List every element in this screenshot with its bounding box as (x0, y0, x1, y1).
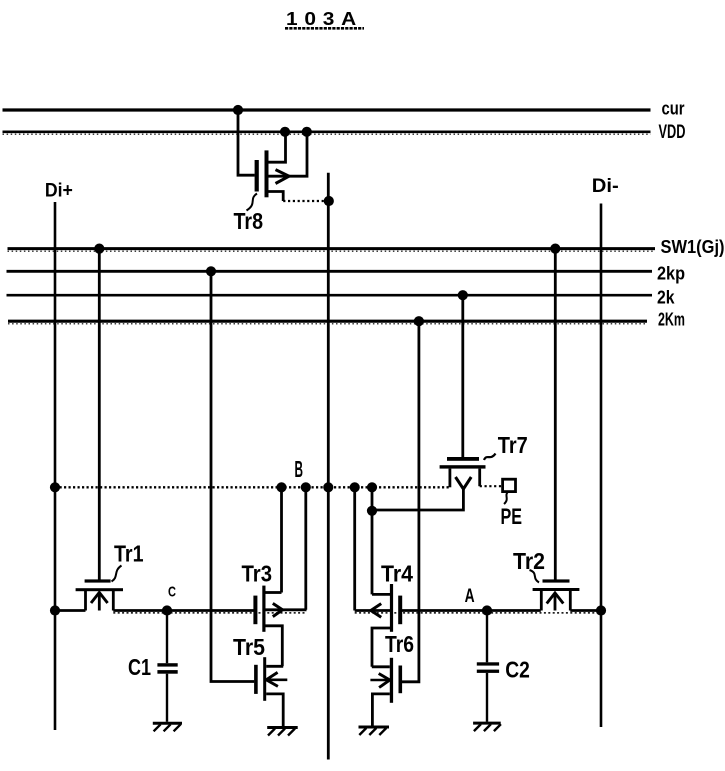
wire B to Tr3 bulk (304, 487, 307, 610)
line Di- (600, 204, 603, 728)
capacitor C2 (477, 611, 499, 722)
bus line cur (3, 108, 651, 111)
svg-text:Tr1: Tr1 (114, 541, 144, 567)
svg-text:2k: 2k (657, 287, 675, 308)
junction dot VDD/Tr8 bulk (302, 127, 312, 137)
wire 2Km to Tr6 gate (402, 321, 419, 682)
transistor Tr4 (355, 584, 403, 667)
svg-text:Di+: Di+ (45, 181, 73, 202)
svg-text:Tr6: Tr6 (385, 631, 414, 657)
wire SW1 to Tr1 gate (98, 249, 101, 581)
junction dot 2kp (206, 266, 216, 276)
leader line Tr8 (247, 194, 258, 211)
bus line 2k (7, 294, 653, 297)
transistor Tr2 (533, 579, 580, 610)
wire B to Tr3 drain (280, 487, 283, 592)
svg-text:PE: PE (501, 504, 523, 529)
svg-text:2kp: 2kp (657, 263, 685, 284)
svg-text:cur: cur (662, 98, 685, 118)
svg-text:Tr3: Tr3 (242, 560, 273, 586)
junction dot B2 (301, 482, 311, 492)
bus line VDD (3, 131, 651, 134)
transistor Tr6 (370, 658, 402, 726)
junction dot B1 (276, 482, 286, 492)
bus line VDD scan texture (3, 133, 651, 135)
wire 2kp to Tr5 gate (211, 271, 254, 681)
junction dot B/Di+ (50, 482, 60, 492)
junction dot B6 lower (367, 506, 377, 516)
junction dot Tr8 source/center wire (324, 196, 334, 206)
title 103A (285, 8, 364, 29)
junction dot cur/Tr8 gate (233, 105, 243, 115)
wire 2k to Tr7 gate (461, 295, 464, 457)
svg-text:Tr4: Tr4 (381, 560, 413, 586)
bus line 2kp (7, 270, 653, 273)
junction dot Di+/row C (50, 605, 60, 615)
svg-text:SW1(Gj): SW1(Gj) (661, 237, 725, 257)
node B dotted wire (55, 486, 450, 488)
dotted shadow row A (355, 612, 601, 614)
ground Tr6 (359, 727, 390, 735)
junction dot SW1 left (94, 244, 104, 254)
junction dot B5 (367, 482, 377, 492)
leader line PE (504, 492, 509, 505)
leader line Tr2 (530, 570, 540, 583)
svg-text:Tr8: Tr8 (234, 208, 264, 234)
junction dot Di-/row A (596, 605, 606, 615)
transistor Tr8 (238, 110, 329, 201)
svg-text:Tr7: Tr7 (498, 432, 528, 458)
svg-text:C: C (168, 583, 176, 600)
wire B to Tr4 drain (371, 487, 374, 594)
ground Tr5 (267, 728, 298, 736)
transistor Tr1 (76, 579, 123, 610)
bus line SW1(Gj) (8, 247, 656, 250)
svg-text:Di-: Di- (592, 176, 619, 197)
wire Di+ to Tr1 (55, 609, 86, 612)
bus line SW1 scan texture (8, 250, 656, 252)
junction dot VDD/Tr8 drain (280, 127, 290, 137)
ground C2 (473, 723, 501, 731)
wire Tr4 gate to node A to Tr2 (402, 609, 541, 612)
junction dot node C (162, 605, 172, 615)
leader tilde Tr7 (484, 454, 496, 461)
dotted shadow row C (113, 612, 306, 614)
svg-text:2Km: 2Km (658, 309, 685, 330)
transistor Tr3 (253, 586, 306, 667)
wire Tr2 to Di- (570, 609, 601, 612)
wire SW1 to Tr2 gate (554, 249, 557, 581)
bus line 2Km (8, 320, 647, 323)
svg-text:VDD: VDD (659, 122, 686, 143)
terminal PE square (503, 479, 516, 491)
center output wire (327, 173, 330, 760)
svg-text:A: A (465, 586, 475, 607)
junction dot B4 (350, 482, 360, 492)
junction dot B3 center (323, 482, 333, 492)
svg-text:Tr2: Tr2 (513, 548, 545, 574)
svg-text:Tr5: Tr5 (233, 634, 265, 660)
capacitor C1 (157, 611, 177, 722)
transistor Tr7 (372, 457, 503, 510)
line Di+ (54, 202, 57, 730)
transistor Tr5 (254, 657, 287, 726)
junction dot node A (482, 605, 492, 615)
svg-text:C1: C1 (128, 654, 151, 680)
junction dot 2k (458, 290, 468, 300)
svg-text:B: B (295, 456, 304, 482)
bus line 2Km scan texture (8, 323, 647, 325)
wire B to Tr4 bulk (353, 487, 356, 610)
junction dot 2Km (414, 316, 424, 326)
ground C1 (153, 723, 182, 731)
svg-text:C2: C2 (505, 657, 530, 683)
leader line Tr1 (112, 566, 122, 582)
wire Tr1 to node C to Tr3 gate (113, 609, 254, 612)
svg-text:103A: 103A (286, 8, 363, 29)
junction dot SW1 right (550, 244, 560, 254)
